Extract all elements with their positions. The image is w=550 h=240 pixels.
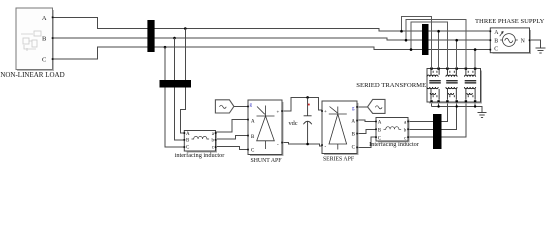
wire inductor1 b to shunt B (216, 136, 249, 140)
wire inductor2 c to transformer (408, 102, 466, 137)
node t4 (455, 39, 458, 42)
svg-text:A: A (351, 120, 355, 125)
wire drop phase C to inductor1 (165, 47, 184, 147)
node t2 (437, 30, 440, 33)
wire transformer t2 to line A (438, 31, 440, 68)
node dc bottom (306, 143, 309, 146)
svg-text:B: B (42, 36, 47, 43)
wire inductor1 a to shunt A (216, 120, 249, 133)
non-linear load block (16, 8, 54, 71)
node staple B (405, 39, 408, 42)
node tap C (164, 46, 167, 49)
wire transformer secondary ground bus (432, 102, 483, 113)
svg-text:THREE PHASE SUPPLY: THREE PHASE SUPPLY (475, 18, 545, 25)
ground transformer (478, 113, 487, 118)
svg-text:NON-LINEAR LOAD: NON-LINEAR LOAD (0, 71, 64, 79)
supply source icon (500, 32, 518, 47)
wire staple A over (402, 17, 432, 69)
non-linear load inner icon (21, 31, 41, 51)
transformer unit T3 icon (465, 70, 477, 100)
wire transformer t4 to line B (456, 40, 458, 68)
svg-text:A: A (251, 119, 255, 124)
shunt APF thyristor icon (257, 106, 275, 150)
transformer unit T1 icon (427, 70, 441, 100)
wire dc link top rail (282, 97, 322, 111)
inductor1 port labels left (186, 132, 190, 151)
svg-text:SERIED TRANSFORMER: SERIED TRANSFORMER (356, 82, 431, 89)
supply port labels (494, 30, 525, 53)
node bus t6 (474, 105, 476, 107)
wire inductor1 c to shunt C (216, 147, 249, 150)
svg-text:A: A (378, 120, 382, 125)
node bus t2 (437, 105, 439, 107)
wire drop phase B to inductor1 (175, 38, 185, 140)
svg-text:+: + (324, 110, 327, 115)
wire phase C load to supply (53, 47, 491, 59)
svg-text:A: A (186, 132, 190, 137)
goto tag pulse G1 (215, 100, 234, 113)
wire inductor2 a to transformer (408, 102, 447, 121)
wire dc link bottom rail (282, 143, 322, 147)
interfacing inductor 1 block (184, 131, 215, 152)
node t6 (474, 48, 477, 51)
node staple C (410, 48, 413, 51)
bus bar measurement B4 (433, 114, 442, 149)
inductor1 port labels right (212, 132, 215, 151)
supply arrow head (501, 31, 504, 34)
svg-text:C: C (494, 47, 498, 53)
wire phase A load to supply (53, 17, 491, 31)
wire series B to inductor2 (357, 129, 376, 133)
capacitor polarity mark (308, 104, 310, 106)
shunt APF port labels (250, 103, 280, 153)
wire transformer t6 to line C (474, 50, 476, 69)
node tap A (184, 27, 187, 30)
inductor2 coil icon (384, 127, 402, 130)
svg-text:SHUNT APF: SHUNT APF (251, 158, 283, 164)
transformer unit T2 icon (446, 70, 458, 100)
interfacing inductor 2 block (376, 118, 408, 142)
port nubs (52, 17, 531, 151)
inductor2 port labels right (404, 120, 407, 141)
transformer port pads (430, 67, 476, 102)
three phase supply block (490, 28, 529, 53)
capacitor Cdc (303, 97, 311, 144)
ground supply (536, 48, 546, 53)
series APF port labels (324, 107, 356, 151)
wire drop phase A to inductor1 (181, 29, 186, 134)
wire inductor2 b to transformer (408, 102, 457, 129)
bus bar measurement B1 (147, 20, 154, 52)
wire series A to inductor2 (357, 120, 376, 121)
svg-text:B: B (494, 38, 498, 44)
wire staple C over (411, 22, 447, 68)
transformer tiny winding numbers (433, 71, 474, 97)
series APF thyristor icon (329, 107, 347, 150)
wire series g to G2 (357, 106, 368, 108)
svg-text:interfacing inductor: interfacing inductor (175, 152, 226, 159)
svg-text:C: C (42, 57, 46, 64)
wire supply N to ground (530, 40, 541, 48)
wire staple B over (406, 20, 466, 69)
series APF block (322, 101, 357, 154)
wire phase B load to supply (53, 38, 491, 40)
wire G1 to shunt g (234, 105, 248, 107)
node staple A (400, 30, 403, 33)
inductor1 coil icon (192, 136, 210, 139)
svg-text:+: + (277, 111, 280, 116)
block shadows (186, 30, 530, 156)
svg-text:SERIES APF: SERIES APF (323, 156, 355, 162)
svg-text:A: A (42, 15, 47, 22)
wire series C to inductor2 (357, 137, 376, 147)
svg-text:vdc: vdc (288, 120, 297, 127)
inductor2 port labels left (378, 120, 382, 141)
goto tag pulse G2 (368, 99, 386, 113)
node dc top (306, 96, 309, 99)
shunt APF block (248, 100, 282, 155)
node tap B (173, 37, 176, 40)
bus bar measurement B3 horizontal (160, 80, 192, 88)
bus bar measurement B2 (422, 24, 429, 55)
series transformer block (427, 69, 481, 103)
node bus t4 (456, 105, 458, 107)
